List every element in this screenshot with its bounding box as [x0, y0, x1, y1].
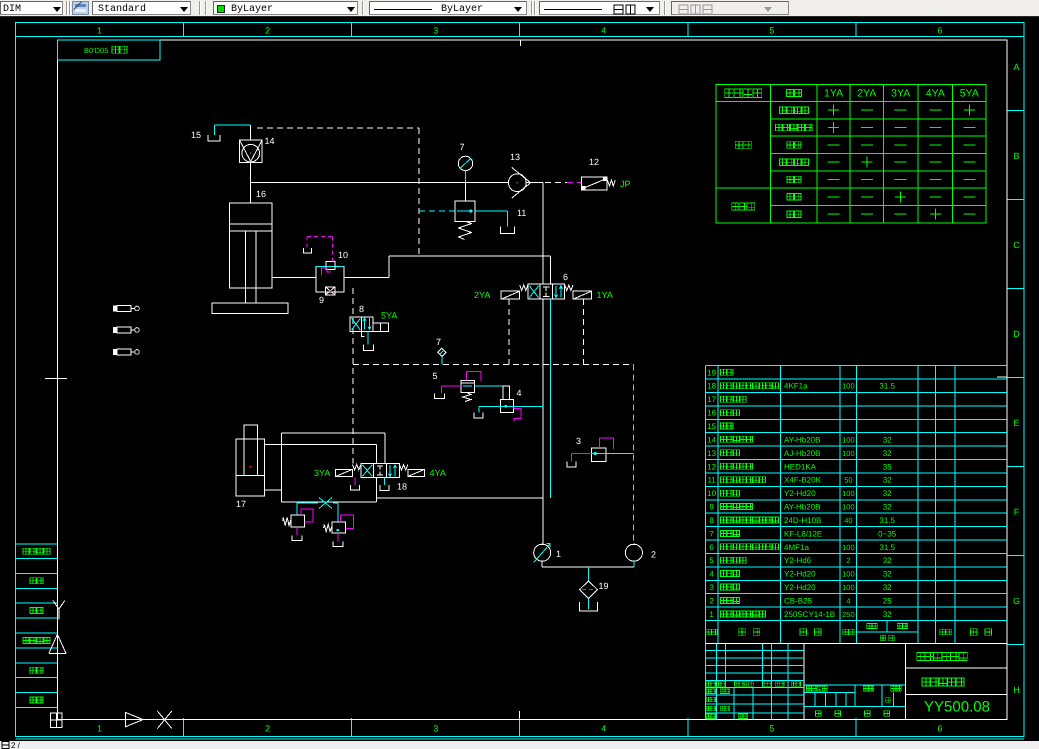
- svg-text:32: 32: [883, 556, 892, 565]
- status bar: [0, 741, 1039, 749]
- svg-text:4MF1a: 4MF1a: [784, 543, 809, 552]
- svg-text:3YA: 3YA: [891, 88, 910, 100]
- svg-text:2YA: 2YA: [857, 88, 876, 100]
- variable pump 1: [534, 543, 561, 562]
- filter 19: [580, 581, 609, 599]
- toolbar: [0, 0, 1039, 17]
- svg-text:100: 100: [842, 449, 855, 458]
- wire: cyan dashed return to pump 2: [633, 364, 635, 543]
- svg-text:4: 4: [517, 388, 522, 398]
- svg-text:9: 9: [709, 503, 714, 512]
- svg-text:12: 12: [589, 157, 599, 167]
- relief valve A: [283, 509, 313, 541]
- gear pump 2: [625, 544, 656, 561]
- top index band numbers: [97, 23, 943, 37]
- wire: main line to check valve 13: [251, 182, 508, 184]
- wire: valve 3 to return line: [606, 453, 634, 455]
- svg-text:4: 4: [601, 26, 606, 36]
- svg-text:5: 5: [709, 556, 714, 565]
- svg-text:YY500.08: YY500.08: [924, 699, 990, 716]
- solenoid valve 8 5YA: [350, 304, 397, 331]
- pressure gauge 7b: [436, 337, 446, 364]
- svg-text:KF-L8/12E: KF-L8/12E: [784, 529, 822, 538]
- svg-text:1: 1: [97, 724, 102, 734]
- svg-text:AJ-Hb20B: AJ-Hb20B: [784, 449, 820, 458]
- title block left signature grid: [705, 688, 803, 720]
- svg-text:5: 5: [769, 26, 774, 36]
- svg-text:31.5: 31.5: [879, 516, 895, 525]
- svg-text:7: 7: [709, 529, 714, 538]
- bottom index band numbers: [97, 718, 943, 737]
- pressure switch 12: [582, 157, 631, 190]
- svg-text:100: 100: [842, 583, 855, 592]
- svg-text:100: 100: [842, 543, 855, 552]
- svg-text:19: 19: [707, 368, 716, 377]
- svg-text:32: 32: [883, 610, 892, 619]
- relief valve B: [324, 515, 354, 547]
- electro-magnet state table: [716, 84, 986, 223]
- tank 15: [191, 130, 220, 141]
- svg-text:C: C: [1013, 240, 1020, 250]
- svg-text:250: 250: [842, 610, 855, 619]
- svg-text:AY-Hb20B: AY-Hb20B: [784, 435, 820, 444]
- svg-text:F: F: [1014, 507, 1020, 517]
- svg-text:E: E: [1013, 418, 1019, 428]
- svg-text:18: 18: [707, 382, 716, 391]
- sequence valve 3: [567, 436, 614, 467]
- svg-text:6: 6: [937, 26, 942, 36]
- title block left revision grid: [705, 644, 803, 688]
- svg-text:HED1KA: HED1KA: [784, 462, 817, 471]
- svg-text:17: 17: [707, 395, 716, 404]
- check sequence valve 4: [500, 386, 521, 421]
- svg-text:16: 16: [256, 189, 266, 199]
- svg-text:11: 11: [517, 208, 526, 218]
- ejector circuit frame rectangle: [265, 433, 543, 502]
- svg-text:2: 2: [651, 550, 656, 560]
- svg-text:100: 100: [842, 489, 855, 498]
- border fold mark triangle: [49, 634, 66, 653]
- svg-text:35: 35: [883, 462, 892, 471]
- svg-text:8: 8: [359, 304, 364, 314]
- svg-text:G: G: [1013, 596, 1020, 606]
- svg-text:100: 100: [842, 503, 855, 512]
- wire: valve 4 to P line cyan: [514, 405, 543, 407]
- svg-text:B0'D05: B0'D05: [84, 46, 108, 55]
- svg-text:100: 100: [842, 382, 855, 391]
- wire: pilot dashed magenta at valve 10: [303, 237, 332, 262]
- svg-text:2: 2: [709, 596, 714, 605]
- svg-text:32: 32: [883, 503, 892, 512]
- svg-text:32: 32: [883, 449, 892, 458]
- border mark X: [157, 711, 171, 729]
- svg-text:3: 3: [433, 724, 438, 734]
- border mark arrow: [126, 713, 143, 727]
- wire: valve 18 tank ports: [350, 478, 388, 491]
- wire: valve 6 A B dashed ports: [509, 299, 584, 364]
- svg-text:8: 8: [709, 516, 714, 525]
- svg-text:AY-Hb20B: AY-Hb20B: [784, 503, 820, 512]
- sequence valve 5: [432, 371, 480, 402]
- svg-text:4: 4: [846, 596, 850, 605]
- wire: valve 5 to valve 4 cyan: [474, 385, 503, 387]
- svg-text:13: 13: [707, 449, 716, 458]
- ejector cylinder 17: [236, 425, 265, 509]
- test point symbols: [113, 306, 139, 356]
- svg-text:2: 2: [265, 26, 270, 36]
- svg-text:31.5: 31.5: [879, 382, 895, 391]
- prefill valve 14: [240, 136, 275, 163]
- title block frame: [705, 644, 1006, 720]
- svg-text:1: 1: [97, 26, 102, 36]
- svg-text:2YA: 2YA: [474, 290, 490, 300]
- svg-text:Y2-Hd20: Y2-Hd20: [784, 570, 816, 579]
- title block right cells: [905, 653, 1006, 716]
- right index band letters: [1007, 62, 1024, 695]
- svg-text:4: 4: [601, 724, 606, 734]
- svg-text:18: 18: [397, 482, 407, 492]
- svg-text:100: 100: [842, 570, 855, 579]
- svg-text:32: 32: [883, 570, 892, 579]
- svg-text:13: 13: [510, 152, 520, 162]
- svg-text:3: 3: [576, 436, 581, 446]
- svg-text:12: 12: [707, 462, 716, 471]
- svg-text:5: 5: [769, 724, 774, 734]
- svg-text:3YA: 3YA: [314, 468, 330, 478]
- pressure gauge 7: [458, 142, 472, 183]
- svg-text:10: 10: [707, 489, 716, 498]
- wire: pilot cyan dashed to valve 11: [419, 210, 455, 212]
- wire: T line cyan below valve 6: [549, 299, 551, 498]
- svg-text:D: D: [1013, 329, 1020, 339]
- svg-text:A: A: [1013, 62, 1019, 72]
- svg-text:19: 19: [599, 581, 609, 591]
- border mark square: [51, 713, 63, 728]
- svg-text:B: B: [1013, 151, 1019, 161]
- wire: tank 15 cyan pipe: [215, 125, 251, 135]
- title block middle section: [804, 685, 906, 717]
- svg-text:1: 1: [556, 549, 561, 559]
- wire: pilot dashed line from 14: [257, 128, 419, 256]
- svg-text:6: 6: [709, 543, 714, 552]
- wire: valve block to P junction staircase: [344, 256, 550, 284]
- svg-text:7: 7: [436, 337, 441, 347]
- svg-text:50: 50: [844, 476, 852, 485]
- wire: white dashed drain header: [352, 288, 354, 463]
- directional valve 18 3YA 4YA: [314, 463, 446, 491]
- svg-text:3: 3: [433, 26, 438, 36]
- svg-text:17: 17: [236, 499, 246, 509]
- tank at valve 11: [501, 226, 515, 233]
- svg-text:X4F-B20K: X4F-B20K: [784, 476, 822, 485]
- check valve 13: [508, 152, 530, 198]
- svg-text:4: 4: [709, 570, 714, 579]
- wire: drain header dashed horizontal: [353, 363, 634, 365]
- border fold mark Y: [53, 601, 65, 620]
- svg-text:32: 32: [883, 435, 892, 444]
- svg-text:JP: JP: [620, 179, 631, 189]
- wire: dashed branch to pressure switch 12: [545, 182, 581, 184]
- svg-text:11: 11: [707, 476, 716, 485]
- svg-text:5YA: 5YA: [960, 88, 979, 100]
- directional valve 6: [474, 272, 613, 300]
- wire: counterbalance branch cyan: [297, 502, 338, 522]
- svg-text:40: 40: [844, 516, 852, 525]
- wire: line 13 to junction: [526, 182, 543, 184]
- svg-text:2: 2: [846, 556, 850, 565]
- svg-text:5YA: 5YA: [381, 311, 397, 321]
- svg-text:5: 5: [432, 371, 437, 381]
- svg-text:15: 15: [191, 130, 201, 140]
- svg-text:Y2-Hd20: Y2-Hd20: [784, 489, 816, 498]
- svg-text:10: 10: [338, 250, 348, 260]
- tank below valve 8: [364, 345, 374, 351]
- svg-text:15: 15: [707, 422, 716, 431]
- svg-text:1YA: 1YA: [824, 88, 843, 100]
- svg-text:7: 7: [459, 142, 464, 152]
- wire: suction line: [542, 561, 634, 581]
- pilot operated check valve block 9 10: [316, 250, 348, 305]
- wire: main vertical pressure line: [542, 183, 544, 285]
- svg-text:31.5: 31.5: [879, 543, 895, 552]
- svg-text:0~35: 0~35: [878, 529, 897, 538]
- main cylinder 16: [212, 189, 288, 314]
- svg-text:Y2-Hd6: Y2-Hd6: [784, 556, 812, 565]
- svg-text:32: 32: [883, 583, 892, 592]
- svg-text:32: 32: [883, 489, 892, 498]
- wire: valve14 stem: [250, 125, 252, 203]
- svg-text:4KF1a: 4KF1a: [784, 382, 808, 391]
- svg-text:250SCY14-1B: 250SCY14-1B: [784, 610, 835, 619]
- wire: P line valve 6 to pump 1: [542, 299, 544, 544]
- wire: filter to tank: [588, 599, 590, 610]
- throttle orifice: [319, 498, 332, 509]
- svg-text:14: 14: [265, 136, 275, 146]
- svg-text:H: H: [1013, 685, 1020, 695]
- wire: valve 11 drain to tank: [475, 211, 507, 226]
- svg-text:14: 14: [707, 435, 716, 444]
- parts list table: [705, 366, 1006, 644]
- svg-text:Y2-Hd20: Y2-Hd20: [784, 583, 816, 592]
- svg-text:6: 6: [937, 724, 942, 734]
- svg-text:4YA: 4YA: [926, 88, 945, 100]
- svg-text:24D-H10B: 24D-H10B: [784, 516, 821, 525]
- wire: cylinder 16 to valve block: [272, 277, 316, 279]
- wire: valve 4 drain to tank: [474, 406, 500, 418]
- svg-text:1: 1: [709, 610, 714, 619]
- svg-text:3: 3: [709, 583, 714, 592]
- left margin strip table: [15, 544, 57, 707]
- title box top-left: [57, 40, 160, 60]
- svg-text:16: 16: [707, 409, 716, 418]
- svg-text:25: 25: [883, 596, 892, 605]
- relief valve 11: [455, 183, 526, 240]
- svg-text:CB-B25: CB-B25: [784, 596, 813, 605]
- svg-text:2: 2: [265, 724, 270, 734]
- svg-text:9: 9: [319, 295, 324, 305]
- main tank: [580, 602, 598, 611]
- svg-text:4YA: 4YA: [430, 468, 446, 478]
- svg-text:32: 32: [883, 476, 892, 485]
- svg-text:100: 100: [842, 435, 855, 444]
- wire: valve 8 drain: [362, 331, 369, 344]
- svg-text:1YA: 1YA: [597, 290, 613, 300]
- svg-text:6: 6: [563, 272, 568, 282]
